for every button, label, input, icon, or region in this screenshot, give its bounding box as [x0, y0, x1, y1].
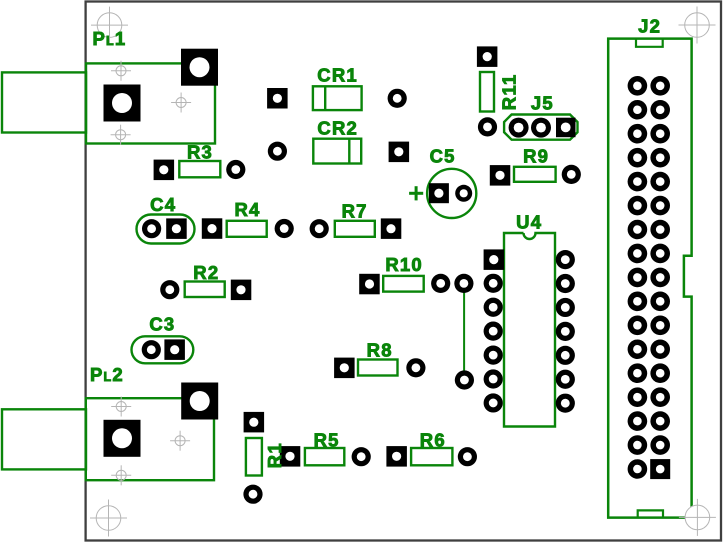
svg-text:R10: R10 — [385, 254, 423, 275]
svg-text:CR1: CR1 — [317, 64, 358, 85]
svg-text:C4: C4 — [150, 194, 176, 215]
svg-text:R2: R2 — [193, 262, 219, 283]
svg-text:R7: R7 — [342, 200, 368, 221]
svg-text:CR2: CR2 — [317, 117, 358, 138]
svg-text:U4: U4 — [516, 212, 542, 233]
svg-text:J2: J2 — [638, 15, 661, 36]
svg-text:R6: R6 — [420, 429, 446, 450]
svg-text:R11: R11 — [499, 74, 520, 111]
svg-text:R5: R5 — [314, 429, 340, 450]
svg-text:R4: R4 — [234, 199, 260, 220]
svg-text:R8: R8 — [367, 339, 393, 360]
svg-text:R3: R3 — [187, 141, 213, 162]
svg-text:J5: J5 — [531, 93, 554, 114]
svg-text:C5: C5 — [430, 145, 456, 166]
svg-text:C3: C3 — [149, 314, 175, 335]
svg-text:R1: R1 — [264, 442, 285, 468]
svg-text:R9: R9 — [523, 146, 549, 167]
